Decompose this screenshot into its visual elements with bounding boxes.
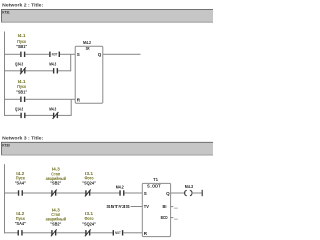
svg-text:M4.3: M4.3	[185, 184, 194, 189]
wire timer Q to coil	[171, 193, 186, 194]
svg-text:Фото: Фото	[85, 216, 94, 221]
svg-text:M4.3: M4.3	[49, 106, 56, 111]
svg-text:...: ...	[174, 204, 178, 209]
wire S5T#3S to TV input	[131, 206, 143, 207]
wire rowA c2-c3	[56, 193, 85, 194]
right rail stub	[202, 190, 203, 196]
network 3 left power rail	[4, 164, 5, 233]
svg-text:"SQ24": "SQ24"	[82, 181, 96, 186]
svg-text:"SA4": "SA4"	[15, 221, 26, 226]
svg-text:T1: T1	[153, 177, 158, 182]
network 2 left power rail	[4, 32, 5, 116]
contact I4.1 NO (row3)	[20, 97, 21, 102]
wire rail to contact I4.2 rowB	[5, 232, 18, 233]
svg-text:Пуск: Пуск	[17, 39, 27, 44]
svg-text:KT31: KT31	[2, 10, 10, 15]
svg-text:M4.2: M4.2	[116, 184, 124, 189]
svg-text:Q14.3: Q14.3	[15, 106, 24, 111]
wire NOT to SR box	[60, 54, 75, 55]
network 3 title bar	[1, 142, 213, 156]
svg-text:"SA4": "SA4"	[15, 181, 26, 186]
contact I3.1 NC (rowA)	[85, 190, 86, 195]
contact I4.3 NC (rowB)	[51, 230, 52, 235]
network 2 title bar	[1, 9, 213, 23]
wire rowA c4 to timer S input	[124, 193, 142, 194]
svg-text:"SB1": "SB1"	[16, 89, 27, 94]
SR flip-flop box M4.2	[75, 46, 103, 103]
wire row4 to merge	[58, 115, 71, 116]
contact I3.1 NC (rowB)	[85, 230, 86, 235]
wire row2 middle	[25, 70, 53, 71]
svg-text:S: S	[77, 52, 80, 57]
wire rail to contact I4.1 row1	[5, 54, 21, 55]
wire row2 to merge	[58, 70, 71, 71]
NOT contact (row1)	[49, 52, 50, 57]
wire coil to right rail	[191, 193, 201, 194]
wire rail to contact Q14.3 row4	[5, 115, 21, 116]
svg-text:BCD: BCD	[161, 215, 169, 220]
branch merge row4 to row3	[71, 99, 72, 116]
wire rowB c2-c3	[56, 232, 85, 233]
svg-text:SR: SR	[86, 46, 90, 51]
contact I4.3 NC (rowA)	[51, 190, 52, 195]
wire contact to NOT row1	[25, 54, 49, 55]
contact Q14.3 NO (row4)	[20, 113, 21, 118]
wire contact to SR box R input	[25, 99, 75, 100]
svg-text:"SB1": "SB1"	[16, 44, 27, 49]
wire row4 middle	[25, 115, 53, 116]
wire NOT to timer R input	[123, 232, 142, 233]
contact I4.1 NO (row1)	[20, 52, 21, 57]
coil M4.3	[185, 190, 187, 196]
svg-text:...: ...	[174, 215, 178, 220]
svg-text:S: S	[144, 191, 147, 196]
wire rowA c1-c2	[23, 193, 52, 194]
svg-text:Q34.3: Q34.3	[15, 62, 24, 67]
svg-text:"SQ24": "SQ24"	[82, 221, 96, 226]
contact I4.2 NO (rowB)	[18, 230, 19, 235]
svg-text:BI: BI	[163, 204, 167, 209]
svg-text:Q: Q	[166, 191, 170, 196]
contact M4.3 NC (row4)	[53, 113, 54, 118]
svg-text:KT33: KT33	[2, 143, 10, 148]
wire rail to contact I4.2 rowA	[5, 193, 18, 194]
wire rail to contact I4.1 row3	[5, 99, 21, 100]
timer box T1 S_ODT	[142, 183, 170, 236]
wire SR Q output	[103, 54, 141, 55]
svg-text:"SB2": "SB2"	[50, 221, 61, 226]
svg-text:I4.1: I4.1	[18, 33, 27, 38]
svg-text:Network 2 : Title:: Network 2 : Title:	[2, 2, 43, 7]
svg-text:S_ODT: S_ODT	[147, 183, 161, 188]
svg-text:"SB2": "SB2"	[50, 181, 61, 186]
svg-text:TV: TV	[144, 204, 149, 209]
svg-text:NOT: NOT	[115, 231, 121, 235]
svg-text:Q: Q	[98, 52, 102, 57]
wire rowA c3-c4	[90, 193, 119, 194]
svg-text:M4.3: M4.3	[49, 62, 56, 67]
wire BI stub	[171, 206, 174, 207]
wire rail to contact Q34.3 row2	[5, 70, 21, 71]
NOT contact (rowB)	[113, 230, 114, 235]
contact I4.2 NO (rowA)	[18, 190, 19, 195]
wire BCD stub	[171, 217, 174, 218]
wire rowB c1-c2	[23, 232, 52, 233]
svg-text:S5T#3S: S5T#3S	[106, 204, 130, 209]
svg-text:Network 3 : Title:: Network 3 : Title:	[2, 135, 43, 140]
contact M4.3 NO (row2)	[53, 68, 54, 73]
svg-text:NOT: NOT	[52, 53, 58, 57]
svg-text:M4.2: M4.2	[83, 40, 91, 45]
contact M4.2 NO (rowA)	[119, 190, 120, 195]
branch merge row2 to row1	[70, 54, 71, 71]
wire rowB c3 to NOT	[90, 232, 113, 233]
contact Q34.3 NC (row2)	[20, 68, 21, 73]
